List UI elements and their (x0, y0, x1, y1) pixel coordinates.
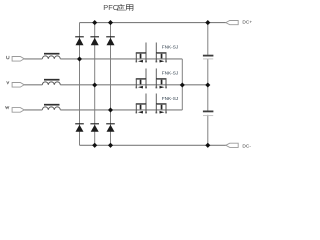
capacitor C1 (203, 55, 214, 59)
node junction top rail col3 (108, 20, 113, 25)
wire DC+ top rail (80, 22, 227, 24)
node U input terminal (7, 56, 25, 61)
inductor L2 (V phase) (42, 80, 60, 85)
node junction top rail cap (205, 20, 210, 25)
wire diode column 3 (110, 23, 112, 146)
diode D5 bottom column 2 (90, 124, 99, 132)
capacitor C2 (203, 111, 214, 116)
node V input terminal (7, 81, 25, 87)
diode D2 top column 2 (90, 37, 99, 45)
wire V phase line (60, 84, 208, 86)
diode D6 bottom column 3 (106, 124, 115, 132)
inductor L3 (W phase) (42, 105, 60, 110)
node junction V cap midpoint (205, 82, 210, 87)
wire diode column 1 (79, 23, 81, 146)
node W input terminal (5, 106, 24, 112)
node junction V common (180, 82, 185, 87)
svg-text:PFC: PFC (103, 3, 118, 12)
transistor Q6 (W phase right MOSFET) (156, 94, 167, 114)
node junction W col3 (108, 107, 113, 112)
svg-text:DC+: DC+ (242, 20, 252, 26)
wire switch common vertical (181, 59, 183, 110)
transistor Q4 (V phase right MOSFET) (156, 68, 167, 88)
svg-text:DC-: DC- (242, 143, 251, 149)
inductor L1 (U phase) (42, 54, 60, 59)
node junction bottom rail cap (205, 143, 210, 148)
diode D1 top column 1 (75, 37, 84, 45)
wire U phase line (60, 58, 182, 60)
transistor Q3 (V phase left MOSFET) (136, 68, 147, 88)
wire capacitor branch vertical (207, 23, 209, 146)
diode D4 bottom column 1 (75, 124, 84, 132)
svg-text:FNK-SJ: FNK-SJ (162, 70, 178, 75)
title char 用 (126, 5, 133, 11)
svg-text:FNK-SJ: FNK-SJ (162, 44, 178, 49)
wire diode column 2 (94, 23, 96, 146)
diode D3 top column 3 (106, 37, 115, 45)
transistor Q5 (W phase left MOSFET) (136, 94, 147, 114)
transistor Q1 (U phase left MOSFET) (136, 43, 147, 63)
node junction U col1 (77, 56, 82, 61)
node DC- output terminal (226, 143, 252, 149)
title char 应 (117, 4, 125, 10)
svg-text:FNK-SJ: FNK-SJ (162, 96, 178, 101)
node junction top rail col2 (92, 20, 97, 25)
node DC+ output terminal (226, 20, 253, 26)
node junction V col2 (92, 82, 97, 87)
wire W input (24, 109, 42, 111)
wire W phase line (60, 109, 182, 111)
node junction bottom rail col3 (108, 143, 113, 148)
node junction bottom rail col2 (92, 143, 97, 148)
transistor Q2 (U phase right MOSFET) (156, 43, 167, 63)
wire V input (24, 84, 42, 86)
wire U input (24, 58, 42, 60)
wire DC- bottom rail (80, 144, 227, 146)
